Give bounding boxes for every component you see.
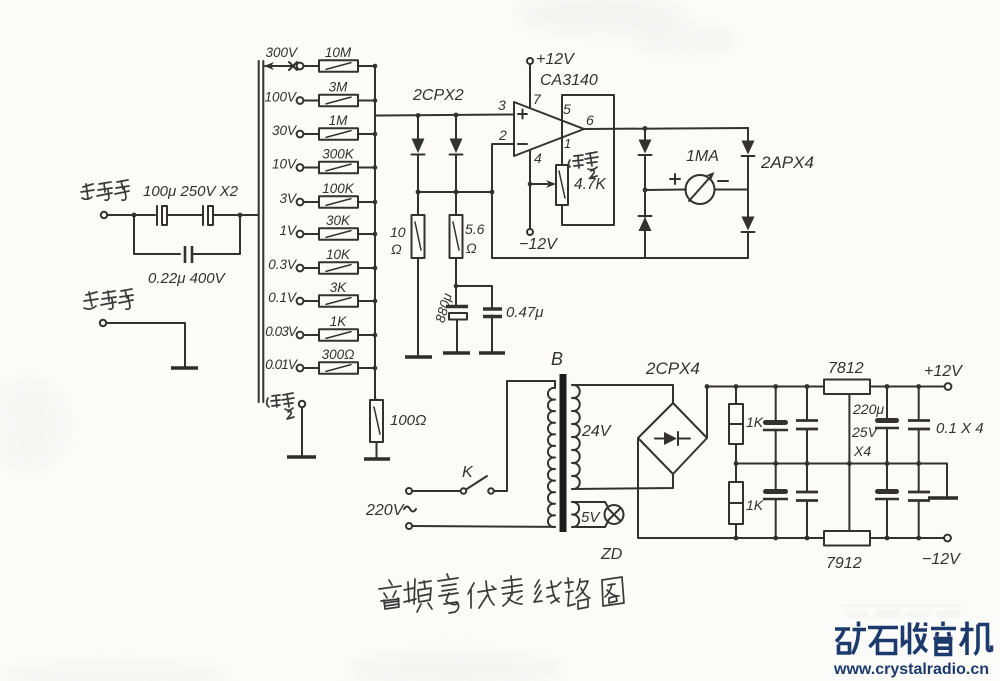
svg-text:10: 10 [390, 224, 406, 240]
svg-text:3M: 3M [329, 80, 349, 95]
wire divider output to op-amp +input [375, 115, 514, 116]
transformer secondary 24V winding [572, 385, 580, 489]
wire 100ohm to ground [376, 442, 378, 458]
svg-text:CA3140: CA3140 [540, 72, 598, 89]
junction nodes on -12V rail [734, 536, 739, 541]
watermark logo 矿 [835, 622, 866, 655]
bridge inner diode [655, 432, 690, 445]
svg-text:ZD: ZD [600, 546, 623, 563]
svg-text:300V: 300V [265, 45, 299, 60]
diode bridge left-top (2APX4) [639, 128, 652, 190]
capacitor 220u lower electrolytic [763, 464, 788, 539]
wire bridge bottom rail to feedback [492, 192, 748, 258]
regulator 7812 [824, 380, 870, 395]
wire 24V top to bridge [572, 385, 673, 403]
svg-text:0.47μ: 0.47μ [506, 304, 543, 321]
range 1V / resistor 30K [279, 213, 377, 240]
svg-text:1: 1 [564, 136, 571, 151]
diode D2 (2CPX2) [450, 115, 463, 192]
resistor 1K lower [729, 464, 764, 539]
switch K [461, 464, 494, 494]
label red probe 红表笔 (scribble) [81, 180, 129, 200]
+12V terminal [527, 58, 533, 64]
regulator 7912 [824, 531, 870, 546]
wire switch to primary top [494, 381, 555, 491]
svg-text:30K: 30K [326, 213, 351, 228]
svg-text:0.3V: 0.3V [268, 257, 298, 272]
center line 7812/7912 ground pins [848, 394, 850, 531]
pin 4 wire to -12V [529, 150, 531, 229]
svg-text:0.1 X 4: 0.1 X 4 [936, 420, 984, 437]
svg-text:0.03V: 0.03V [265, 324, 299, 339]
wire black probe to ground [106, 323, 185, 367]
svg-text:1M: 1M [329, 113, 349, 128]
range 0.01V / resistor 300&#937; [265, 347, 377, 374]
capacitor 880u (electrolytic) [433, 291, 468, 352]
wire diode bottoms to feedback node [418, 191, 492, 193]
pilot lamp ZD [605, 502, 624, 527]
node bridge top-left [643, 126, 648, 131]
svg-text:1MA: 1MA [686, 148, 719, 165]
ground (0V rail) [928, 496, 958, 500]
diode bridge right-bottom [742, 190, 755, 259]
capacitor film lower [796, 464, 818, 539]
range 0.03V / resistor 1K [265, 314, 377, 341]
wire 24V bottom to bridge [572, 474, 673, 489]
svg-text:5.6: 5.6 [465, 221, 485, 237]
svg-text:B: B [551, 349, 563, 369]
transformer 5V winding [572, 502, 579, 527]
meter M 1mA [670, 172, 728, 204]
terminal +12V [945, 383, 952, 390]
svg-text:2CPX4: 2CPX4 [645, 359, 700, 378]
svg-text:220V: 220V [365, 502, 405, 519]
svg-text:2APX4: 2APX4 [760, 153, 814, 172]
range 100V / resistor 3M [264, 80, 377, 107]
ground (100 ohm) [364, 457, 390, 460]
svg-text:3V: 3V [279, 191, 298, 206]
title char 频 [404, 579, 432, 612]
pin 2 wire (inverting input) [492, 144, 514, 192]
wire to primary bottom [412, 525, 555, 528]
title char 音 [379, 580, 401, 609]
range 3V / resistor 100K [279, 181, 377, 208]
label 调零 (scribble) [569, 152, 599, 178]
node at diode D2 [454, 113, 459, 118]
wire op-amp output (pin 6) to bridge top rail [584, 128, 748, 129]
transformer core [560, 374, 567, 532]
svg-text:100Ω: 100Ω [390, 412, 426, 429]
svg-text:220μ: 220μ [852, 401, 884, 417]
wire [213, 214, 258, 216]
svg-text:7912: 7912 [826, 555, 862, 572]
terminal: black probe input [100, 320, 106, 326]
svg-text:6: 6 [586, 112, 594, 128]
capacitor C1 100u (left of series pair) [156, 206, 158, 225]
svg-text:3K: 3K [330, 280, 348, 295]
watermark logo 收 [903, 623, 928, 655]
wire 7912 out to -12V [870, 537, 944, 539]
capacitor 220u upper electrolytic [763, 384, 788, 463]
diode D1 (2CPX2) [412, 116, 425, 193]
svg-text:0.22μ 400V: 0.22μ 400V [148, 270, 227, 287]
diode bridge left-bottom (points up) [639, 190, 652, 258]
terminal 220V lower [406, 523, 412, 529]
selector bus (rotary switch common, double line) [258, 61, 260, 402]
svg-text:2CPX2: 2CPX2 [412, 87, 464, 104]
resistor 100 ohm [375, 398, 376, 400]
ground (wiper) [287, 455, 316, 458]
wire wiper to ground [301, 407, 303, 456]
wire to meter + [645, 189, 686, 192]
wire bridge - output down and right [638, 438, 824, 538]
faint ghost band [842, 604, 962, 618]
svg-text:2: 2 [498, 127, 507, 143]
svg-text:K: K [462, 464, 474, 481]
capacitor 220u after reg [875, 384, 899, 463]
wire meter to right branch [715, 189, 749, 191]
junction at bypass branch [132, 213, 137, 218]
label black probe 黑表笔 (scribble) [84, 289, 133, 309]
capacitor 220u lower right [875, 464, 899, 539]
ground (0.47u) [479, 351, 505, 354]
title char 图 [602, 577, 624, 606]
svg-text:5: 5 [563, 101, 571, 117]
capacitor 0.47u [483, 304, 543, 352]
wire [107, 214, 155, 216]
wiper terminal + label 调零 (scribble) [267, 393, 294, 419]
pin 7 wire [529, 64, 531, 108]
junction right of caps [238, 213, 243, 218]
svg-text:3: 3 [498, 97, 506, 113]
capacitor C3 0.22u 400V [185, 246, 192, 263]
svg-text:300Ω: 300Ω [322, 347, 355, 362]
potentiometer 4.7K zero adjust [556, 165, 568, 205]
svg-text:1K: 1K [746, 414, 764, 430]
wiper arrow from pin4 to pot [528, 182, 533, 187]
svg-text:X4: X4 [853, 443, 871, 459]
title char 路 [565, 578, 590, 609]
wire 7812 out to +12V [870, 386, 945, 388]
svg-text:100μ 250V X2: 100μ 250V X2 [143, 183, 239, 200]
svg-text:Ω: Ω [466, 240, 477, 256]
wire to switch [412, 490, 460, 492]
range 0.3V / resistor 10K [268, 247, 377, 274]
-12V terminal [527, 229, 533, 235]
title char 伏 [468, 581, 496, 608]
range 0.1V / resistor 3K [268, 280, 377, 307]
wire [167, 214, 203, 216]
svg-text:−12V: −12V [519, 236, 558, 253]
resistor 10 ohm [390, 192, 425, 356]
op-amp U1 CA3140 triangle [514, 102, 584, 156]
watermark logo 石 [868, 628, 898, 654]
wire bypass branch right [192, 215, 240, 254]
svg-text:4.7K: 4.7K [574, 176, 607, 193]
capacitor C2 100u (right of series pair) [202, 206, 204, 225]
capacitor 0.1 after reg [908, 384, 930, 463]
svg-text:1V: 1V [279, 223, 298, 238]
node bridge left-middle [643, 188, 648, 193]
svg-text:10M: 10M [325, 45, 352, 60]
range 10V / resistor 300K [272, 147, 377, 174]
node 5.6 bottom [454, 284, 459, 289]
svg-text:0.1V: 0.1V [268, 290, 298, 305]
capacitor 0.1 lower right [908, 464, 930, 539]
resistor 5.6 ohm [450, 192, 485, 305]
transformer B primary winding [548, 381, 555, 527]
wire bridge + output up and right [707, 387, 824, 439]
wire to 0.47u branch [456, 286, 492, 307]
terminal: red probe input [101, 212, 107, 218]
watermark logo 音 [931, 622, 956, 655]
wire bypass branch left down [134, 215, 180, 254]
ground (880u) [443, 351, 470, 354]
svg-text:100K: 100K [322, 181, 355, 196]
capacitor film upper [796, 384, 818, 463]
middle 0V rail [736, 464, 947, 498]
svg-text:5V: 5V [581, 509, 601, 526]
range 300V / resistor 10M [264, 45, 377, 72]
svg-text:100V: 100V [264, 90, 298, 105]
wire 5V loop + lamp ZD [572, 501, 605, 503]
svg-text:1K: 1K [330, 314, 348, 329]
resistor 1K upper [729, 384, 764, 463]
diode bridge right-top (2APX4) [742, 128, 755, 190]
svg-text:7: 7 [533, 91, 542, 107]
svg-text:−12V: −12V [922, 551, 961, 568]
svg-text:4: 4 [534, 150, 542, 166]
svg-text:Ω: Ω [391, 241, 402, 257]
svg-text:+12V: +12V [536, 51, 575, 68]
terminal 220V upper [406, 488, 412, 494]
svg-text:300K: 300K [322, 147, 355, 162]
bridge rectifier 2CPX4 diamond [638, 403, 707, 474]
svg-text:10K: 10K [326, 247, 351, 262]
svg-text:www.crystalradio.cn: www.crystalradio.cn [833, 661, 989, 678]
svg-text:1K: 1K [746, 497, 764, 513]
ground (10 ohm) [405, 355, 432, 358]
svg-text:30V: 30V [272, 123, 298, 138]
title char 毫 [438, 574, 459, 613]
svg-text:+12V: +12V [924, 363, 963, 380]
title char 线 [534, 580, 561, 603]
title char 表 [502, 576, 522, 606]
terminal -12V [944, 535, 951, 542]
svg-text:10V: 10V [272, 157, 298, 172]
watermark logo 机 [960, 622, 992, 656]
ground (black probe) [171, 366, 198, 369]
output bus (right vertical) [374, 66, 376, 398]
node bridge + output [705, 384, 710, 389]
svg-text:0.01V: 0.01V [265, 357, 299, 372]
range 30V / resistor 1M [272, 113, 377, 140]
svg-text:7812: 7812 [828, 360, 864, 377]
svg-text:25V: 25V [851, 424, 879, 440]
svg-text:24V: 24V [581, 423, 612, 440]
node at diode D1 [416, 113, 421, 118]
offset null loop rectangle [562, 95, 614, 225]
